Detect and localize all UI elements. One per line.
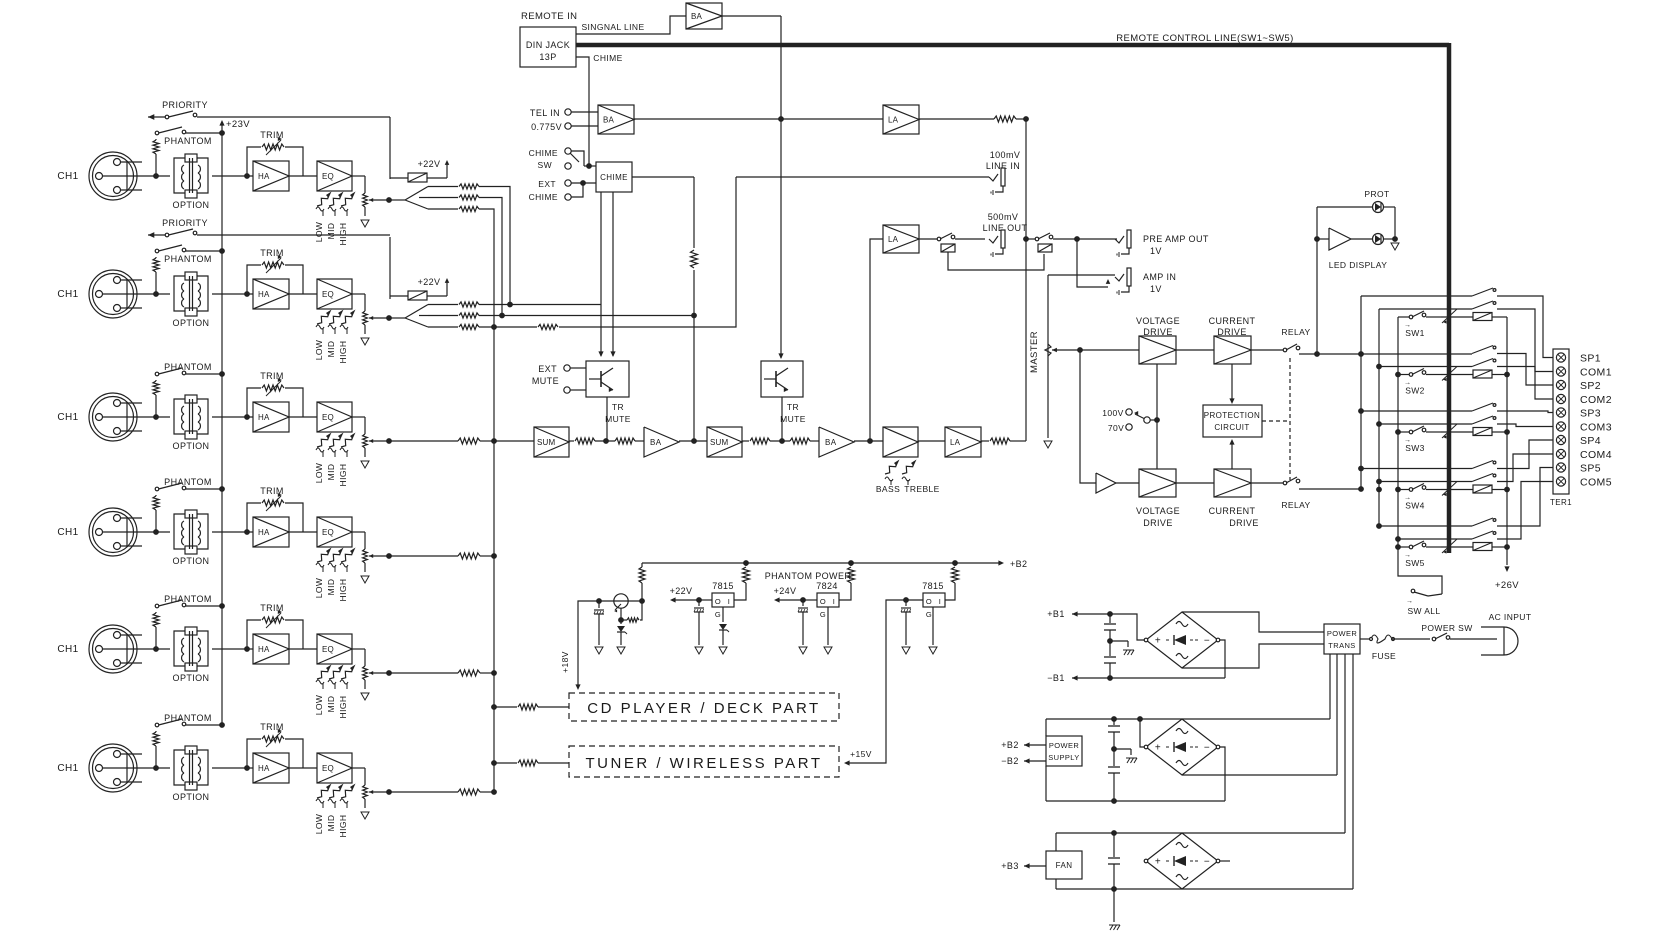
svg-text:REMOTE IN: REMOTE IN <box>521 11 577 22</box>
POWER SW switch <box>1421 623 1497 641</box>
svg-text:HA: HA <box>258 528 270 537</box>
7824 gnd line <box>827 607 829 645</box>
arrow chime mute 1 <box>598 351 603 357</box>
node led amp in <box>1314 236 1320 242</box>
voltage drive amp 1 <box>1139 336 1176 364</box>
svg-text:TREBLE: TREBLE <box>904 484 939 494</box>
MASTER potentiometer <box>1029 275 1080 438</box>
labels voltage drive 2 <box>1136 506 1180 528</box>
7815a out cap <box>694 600 704 645</box>
svg-text:RELAY: RELAY <box>1281 327 1310 337</box>
input transformer T3 <box>174 395 208 439</box>
100V 70V selector <box>1102 408 1157 433</box>
CHIME SW switch <box>529 148 584 170</box>
node mix bus junction <box>491 553 497 559</box>
relay2 joins sw4 row <box>1376 487 1401 493</box>
node tel signal line cross <box>778 116 784 122</box>
svg-text:LOW: LOW <box>314 578 324 599</box>
svg-text:EQ: EQ <box>322 413 334 422</box>
EQ LOW MID HIGH pots <box>314 784 356 838</box>
ground arrow channel pot <box>361 461 369 468</box>
contact feed A3 <box>1358 408 1472 414</box>
wire ch1 row c to bus <box>479 209 494 792</box>
TRIM potentiometer <box>247 130 303 176</box>
priority bus drop ch1 <box>389 117 391 179</box>
7815b out cap <box>901 600 911 645</box>
svg-text:MID: MID <box>326 696 336 713</box>
svg-text:CH1: CH1 <box>57 763 78 774</box>
contact feed B3 <box>1376 421 1472 427</box>
PROTECTION CIRCUIT box <box>1203 405 1262 437</box>
terminal SP5 <box>1556 463 1601 475</box>
svg-text:EQ: EQ <box>322 645 334 654</box>
ground arrow channel pot <box>361 220 369 227</box>
svg-text:SW4: SW4 <box>1405 501 1425 511</box>
resistor to BA1 <box>615 438 644 444</box>
svg-text:+23V: +23V <box>226 119 250 130</box>
TUNER WIRELESS PART box <box>569 746 839 777</box>
svg-text:7815: 7815 <box>922 581 944 591</box>
svg-text:COM2: COM2 <box>1580 394 1612 406</box>
svg-text:I: I <box>939 597 941 606</box>
wire transformer to HA <box>212 767 253 769</box>
+B1 output <box>1047 609 1110 619</box>
svg-text:G: G <box>820 610 826 619</box>
EXT MUTE terminals <box>532 364 586 393</box>
mix resistor <box>389 553 494 559</box>
node HA input <box>244 414 250 420</box>
wire chime mute drive 1 <box>600 192 602 356</box>
channel level potentiometer <box>352 649 389 689</box>
node b2 cap mid <box>1111 746 1117 752</box>
line amp feed vertical <box>870 239 883 441</box>
node input junction <box>153 291 159 297</box>
mech link SW5 <box>1442 539 1457 554</box>
relay 1 switch <box>1281 327 1398 354</box>
svg-text:100mV: 100mV <box>990 150 1021 160</box>
ground arrow 7824 gnd <box>824 647 832 654</box>
svg-text:PHANTOM: PHANTOM <box>164 254 212 264</box>
+B3 arrow <box>1001 861 1046 871</box>
svg-text:MID: MID <box>326 464 336 481</box>
wire chime sw to chime box <box>584 165 596 167</box>
node chime inject <box>691 438 697 444</box>
mech link SW4 <box>1442 482 1457 497</box>
input resistor 7824 <box>838 563 855 600</box>
svg-text:VOLTAGE: VOLTAGE <box>1136 506 1180 516</box>
-B2 arrow psu <box>1001 756 1046 766</box>
node HA input <box>244 291 250 297</box>
svg-text:LOW: LOW <box>314 222 324 243</box>
node ch2 row b bus <box>499 313 505 319</box>
CHIME generator box <box>596 162 632 192</box>
ground arrow 7815a gnd <box>719 647 727 654</box>
svg-text:SP3: SP3 <box>1580 408 1601 420</box>
line amp LA main <box>945 427 981 457</box>
svg-text:+15V: +15V <box>850 749 872 759</box>
svg-text:COM1: COM1 <box>1580 367 1612 379</box>
svg-text:FUSE: FUSE <box>1372 651 1396 661</box>
PRIORITY switch <box>148 218 390 238</box>
wire tel BA to LA <box>634 118 883 120</box>
b2 cap stack <box>1108 719 1120 801</box>
svg-text:1V: 1V <box>1150 284 1162 294</box>
AC INPUT plug <box>1481 612 1531 655</box>
svg-text:+B2: +B2 <box>1001 740 1018 750</box>
node channel pot wiper <box>386 315 392 321</box>
svg-text:BASS: BASS <box>876 484 900 494</box>
relay coil K2 <box>1441 370 1507 378</box>
discrete regulator 18V <box>599 563 645 622</box>
svg-text:+: + <box>1155 857 1161 868</box>
svg-text:MID: MID <box>326 815 336 832</box>
svg-text:−: − <box>1204 857 1210 868</box>
arrow cd2 to protection <box>1229 439 1234 469</box>
tone control amp <box>883 427 918 457</box>
svg-text:TR: TR <box>612 402 624 412</box>
phantom feed resistor <box>153 495 159 532</box>
wire HA to EQ <box>289 648 317 650</box>
svg-text:MASTER: MASTER <box>1029 331 1040 373</box>
node led gnd <box>1392 236 1398 242</box>
svg-text:MID: MID <box>326 341 336 358</box>
regulator 7824 <box>816 581 839 619</box>
svg-text:CD PLAYER / DECK PART: CD PLAYER / DECK PART <box>587 700 820 717</box>
svg-text:SP4: SP4 <box>1580 435 1601 447</box>
svg-text:EQ: EQ <box>322 764 334 773</box>
head amp HA ch2 <box>253 279 289 309</box>
svg-text:CURRENT: CURRENT <box>1209 316 1256 326</box>
resistor sum1 out <box>569 438 615 444</box>
svg-text:BA: BA <box>825 438 837 447</box>
reg zener <box>617 620 627 645</box>
wire ch1 row a to bus <box>479 187 510 305</box>
input transformer T1 <box>174 154 208 198</box>
wire master to vd1 <box>1080 349 1139 351</box>
svg-text:DRIVE: DRIVE <box>1229 518 1259 528</box>
node b3 cap bottom <box>1111 886 1117 892</box>
node phantom bus tap <box>219 603 225 609</box>
svg-text:SW5: SW5 <box>1405 558 1425 568</box>
contact feed B1 <box>1379 308 1472 310</box>
+22V output <box>670 586 712 603</box>
TEL IN terminals <box>565 109 598 129</box>
wire chime out right <box>632 176 694 178</box>
wire bridge2 plus riser <box>1140 719 1144 747</box>
+23V phantom bus <box>219 119 250 725</box>
relay 2 switch <box>1281 477 1361 510</box>
routing resistor b <box>428 313 479 318</box>
node input junction <box>153 646 159 652</box>
routing resistor a <box>428 302 479 307</box>
contact feed B5 <box>1395 536 1472 542</box>
mix resistor <box>389 789 494 795</box>
channel level potentiometer <box>352 532 389 572</box>
head amp HA ch4 <box>253 517 289 547</box>
svg-text:TER1: TER1 <box>1550 498 1572 507</box>
500mV LINE OUT jack <box>983 212 1028 257</box>
wire b1 plus to bridge <box>1110 614 1144 640</box>
wire ch2 row a <box>479 304 601 306</box>
wire cd1 to relay <box>1251 349 1283 351</box>
svg-text:O: O <box>820 597 826 606</box>
svg-text:TUNER / WIRELESS PART: TUNER / WIRELESS PART <box>586 755 823 772</box>
sw bus left c <box>1397 317 1399 551</box>
buffer triangle lower <box>1096 473 1139 493</box>
PRE AMP OUT jack <box>1115 230 1209 257</box>
svg-text:BA: BA <box>691 12 703 21</box>
mech link SW2 <box>1442 367 1457 382</box>
node channel pot wiper <box>386 789 392 795</box>
svg-text:BA: BA <box>650 438 662 447</box>
svg-text:HA: HA <box>258 764 270 773</box>
XLR connector CH2 <box>89 270 142 318</box>
wire chime from DIN jack <box>576 57 589 166</box>
TRIM potentiometer <box>247 722 303 768</box>
mix resistor <box>389 670 494 676</box>
input resistor 7815a <box>734 563 750 600</box>
switch SW1 <box>1398 311 1441 338</box>
relay1 line extension <box>1398 353 1472 355</box>
ground arrow channel pot <box>361 576 369 583</box>
svg-text:OPTION: OPTION <box>173 792 210 802</box>
input transformer T4 <box>174 510 208 554</box>
node b1 cap bottom <box>1107 675 1113 681</box>
TRIM potentiometer <box>247 248 303 294</box>
wire transformer to HA <box>212 648 253 650</box>
trans secondary lines <box>1330 654 1353 889</box>
svg-text:CH1: CH1 <box>57 527 78 538</box>
EQ LOW MID HIGH pots <box>314 548 356 602</box>
AMP IN jack <box>1048 239 1176 295</box>
svg-text:PHANTOM POWER: PHANTOM POWER <box>765 571 852 581</box>
svg-text:SW2: SW2 <box>1405 386 1425 396</box>
ground arrow channel pot <box>361 338 369 345</box>
7815a gnd zener <box>719 607 729 645</box>
buffer amp BA signal line <box>686 3 722 29</box>
svg-text:+B1: +B1 <box>1047 609 1064 619</box>
PHANTOM switch <box>155 127 222 146</box>
current drive amp 1 <box>1214 336 1251 364</box>
EQ amp ch3 <box>317 402 352 432</box>
labels current drive 1 <box>1209 316 1256 337</box>
node bridge2 riser <box>1137 716 1143 722</box>
svg-text:→: → <box>1406 598 1413 605</box>
wire HA to EQ <box>289 416 317 418</box>
svg-text:LA: LA <box>888 235 899 244</box>
svg-text:MID: MID <box>326 223 336 240</box>
svg-text:−: − <box>1204 743 1210 754</box>
wire bridge2 ac top <box>1046 718 1330 720</box>
priority bus drop ch2 <box>389 237 391 299</box>
svg-text:+22V: +22V <box>418 277 441 287</box>
wire ch2 row c with resistor <box>479 177 736 330</box>
wire BA out to mute line <box>722 15 781 17</box>
mech link SW1 <box>1442 309 1457 324</box>
node phantom bus tap <box>219 371 225 377</box>
EQ LOW MID HIGH pots <box>314 310 356 364</box>
buffer amp BA 2 <box>819 427 854 457</box>
TR MUTE 1 box <box>586 361 631 441</box>
label TEL IN 0.775V <box>530 108 562 132</box>
XLR connector CH5 <box>89 625 142 673</box>
POWER TRANS box <box>1324 624 1360 654</box>
svg-text:LOW: LOW <box>314 340 324 361</box>
relay contact 5a to SP5 <box>1472 468 1553 527</box>
node mix bus junction <box>491 789 497 795</box>
svg-text:OPTION: OPTION <box>173 673 210 683</box>
node rail tap 7815a <box>743 560 749 566</box>
svg-text:TRANS: TRANS <box>1328 641 1355 650</box>
svg-text:EXT: EXT <box>538 179 556 189</box>
switch SW3 <box>1398 426 1441 453</box>
svg-text:+B3: +B3 <box>1001 861 1018 871</box>
buffer amp BA 1 <box>644 427 679 457</box>
svg-text:PRIORITY: PRIORITY <box>162 100 208 110</box>
node channel pot wiper <box>386 553 392 559</box>
svg-text:+18V: +18V <box>560 651 570 673</box>
node mix bus junction <box>491 438 497 444</box>
svg-text:CH1: CH1 <box>57 644 78 655</box>
svg-text:CIRCUIT: CIRCUIT <box>1214 423 1249 432</box>
node b3 cap top <box>1111 830 1117 836</box>
svg-text:13P: 13P <box>539 52 556 62</box>
node phantom bus tap <box>219 722 225 728</box>
DIN JACK 13P box <box>520 27 576 67</box>
phantom feed resistor <box>153 139 159 176</box>
voltage drive amp 2 <box>1139 469 1176 497</box>
line out bus vertical <box>1025 119 1027 441</box>
ground arrow reg zener <box>617 647 625 654</box>
head amp HA ch1 <box>253 161 289 191</box>
wire HA to EQ <box>289 767 317 769</box>
head amp HA ch5 <box>253 634 289 664</box>
svg-text:AC INPUT: AC INPUT <box>1489 612 1532 622</box>
EQ amp ch2 <box>317 279 352 309</box>
sw bus left a <box>1360 296 1362 489</box>
signal line vertical to TR mute 2 <box>780 16 782 358</box>
svg-text:+: + <box>1155 743 1161 754</box>
relay coil K3 <box>1441 428 1507 436</box>
relay coil K5 <box>1441 543 1507 551</box>
XLR connector CH3 <box>89 393 142 441</box>
node 100V selector <box>1154 417 1160 423</box>
regulator 7815 a <box>712 581 734 619</box>
bridge rectifier 2 <box>1144 719 1220 775</box>
svg-text:−: − <box>1204 636 1210 647</box>
svg-text:HA: HA <box>258 413 270 422</box>
ground arrow 7824 cap <box>799 647 807 654</box>
svg-text:O: O <box>926 597 932 606</box>
relay contact 1a to SP1 <box>1472 288 1553 358</box>
svg-text:1V: 1V <box>1150 246 1162 256</box>
node coil bus joints <box>1504 372 1510 550</box>
master feed resistor <box>981 438 1026 444</box>
channel level potentiometer <box>352 294 389 334</box>
svg-text:LOW: LOW <box>314 814 324 835</box>
PHANTOM switch <box>155 245 222 264</box>
svg-text:TEL IN: TEL IN <box>530 108 560 118</box>
phantom feed resistor <box>153 380 159 417</box>
svg-text:SP1: SP1 <box>1580 353 1601 365</box>
+B2 arrow psu <box>1001 740 1046 750</box>
+26V supply arrow <box>1495 566 1519 591</box>
node master wiper <box>1077 347 1083 353</box>
line amp LA tel <box>883 105 919 134</box>
svg-text:EQ: EQ <box>322 528 334 537</box>
node reg collector <box>639 598 645 604</box>
wire ba2 to tone <box>854 440 883 442</box>
relay coil line out b <box>1038 244 1052 252</box>
wire xlr to transformer <box>103 767 170 769</box>
svg-text:CH1: CH1 <box>57 289 78 300</box>
wire vd1 cd1 <box>1176 349 1214 351</box>
bridge rectifier 3 <box>1144 833 1220 889</box>
svg-text:HA: HA <box>258 172 270 181</box>
ground arrow reg cap <box>595 647 603 654</box>
svg-text:O: O <box>715 597 721 606</box>
wire HA to EQ <box>289 175 317 177</box>
node HA input <box>244 529 250 535</box>
PRIORITY switch <box>148 100 390 120</box>
svg-text:SW3: SW3 <box>1405 443 1425 453</box>
LED prot <box>1373 202 1384 213</box>
svg-text:EQ: EQ <box>322 290 334 299</box>
contact feed A4 <box>1358 466 1472 472</box>
svg-text:70V: 70V <box>1108 423 1124 433</box>
svg-text:+22V: +22V <box>670 586 693 596</box>
thick REMOTE CONTROL LINE <box>576 33 1449 553</box>
CD PLAYER DECK PART box <box>569 693 839 721</box>
wire transformer to HA <box>212 416 253 418</box>
TRIM potentiometer <box>247 371 303 417</box>
node HA input <box>244 765 250 771</box>
TRIM potentiometer <box>247 603 303 649</box>
phantom feed resistor <box>153 257 159 294</box>
node mix bus junction <box>491 670 497 676</box>
node reg base <box>596 598 602 604</box>
svg-text:CURRENT: CURRENT <box>1209 506 1256 516</box>
node row5 feed <box>1395 544 1401 550</box>
b1 cap mid ground <box>1110 641 1134 655</box>
led display amp triangle <box>1329 228 1351 250</box>
input transformer T5 <box>174 627 208 671</box>
relay coil line out a <box>941 244 1044 270</box>
wire bridge1 ac bottom <box>1182 644 1324 668</box>
+24V output <box>774 586 817 603</box>
wire chime mute drive 2 <box>612 192 614 356</box>
wire HA to EQ <box>289 293 317 295</box>
svg-text:OPTION: OPTION <box>173 441 210 451</box>
svg-text:SP2: SP2 <box>1580 380 1601 392</box>
svg-text:SW1: SW1 <box>1405 328 1425 338</box>
bridge3 stub <box>1220 860 1230 862</box>
wire signal line to BA <box>576 16 686 34</box>
node channel pot wiper <box>386 670 392 676</box>
node relay line led tap <box>1314 351 1320 357</box>
svg-text:PRE AMP OUT: PRE AMP OUT <box>1143 234 1209 244</box>
terminal SP4 <box>1556 435 1601 447</box>
node ch2 row b chime line <box>691 313 697 319</box>
svg-text:PROTECTION: PROTECTION <box>1204 411 1260 420</box>
terminal COM4 <box>1556 449 1612 461</box>
svg-text:COM5: COM5 <box>1580 477 1612 489</box>
svg-text:RELAY: RELAY <box>1281 500 1310 510</box>
PHANTOM switch <box>155 713 222 727</box>
svg-text:LOW: LOW <box>314 695 324 716</box>
node input junction <box>153 529 159 535</box>
svg-text:500mV: 500mV <box>988 212 1019 222</box>
